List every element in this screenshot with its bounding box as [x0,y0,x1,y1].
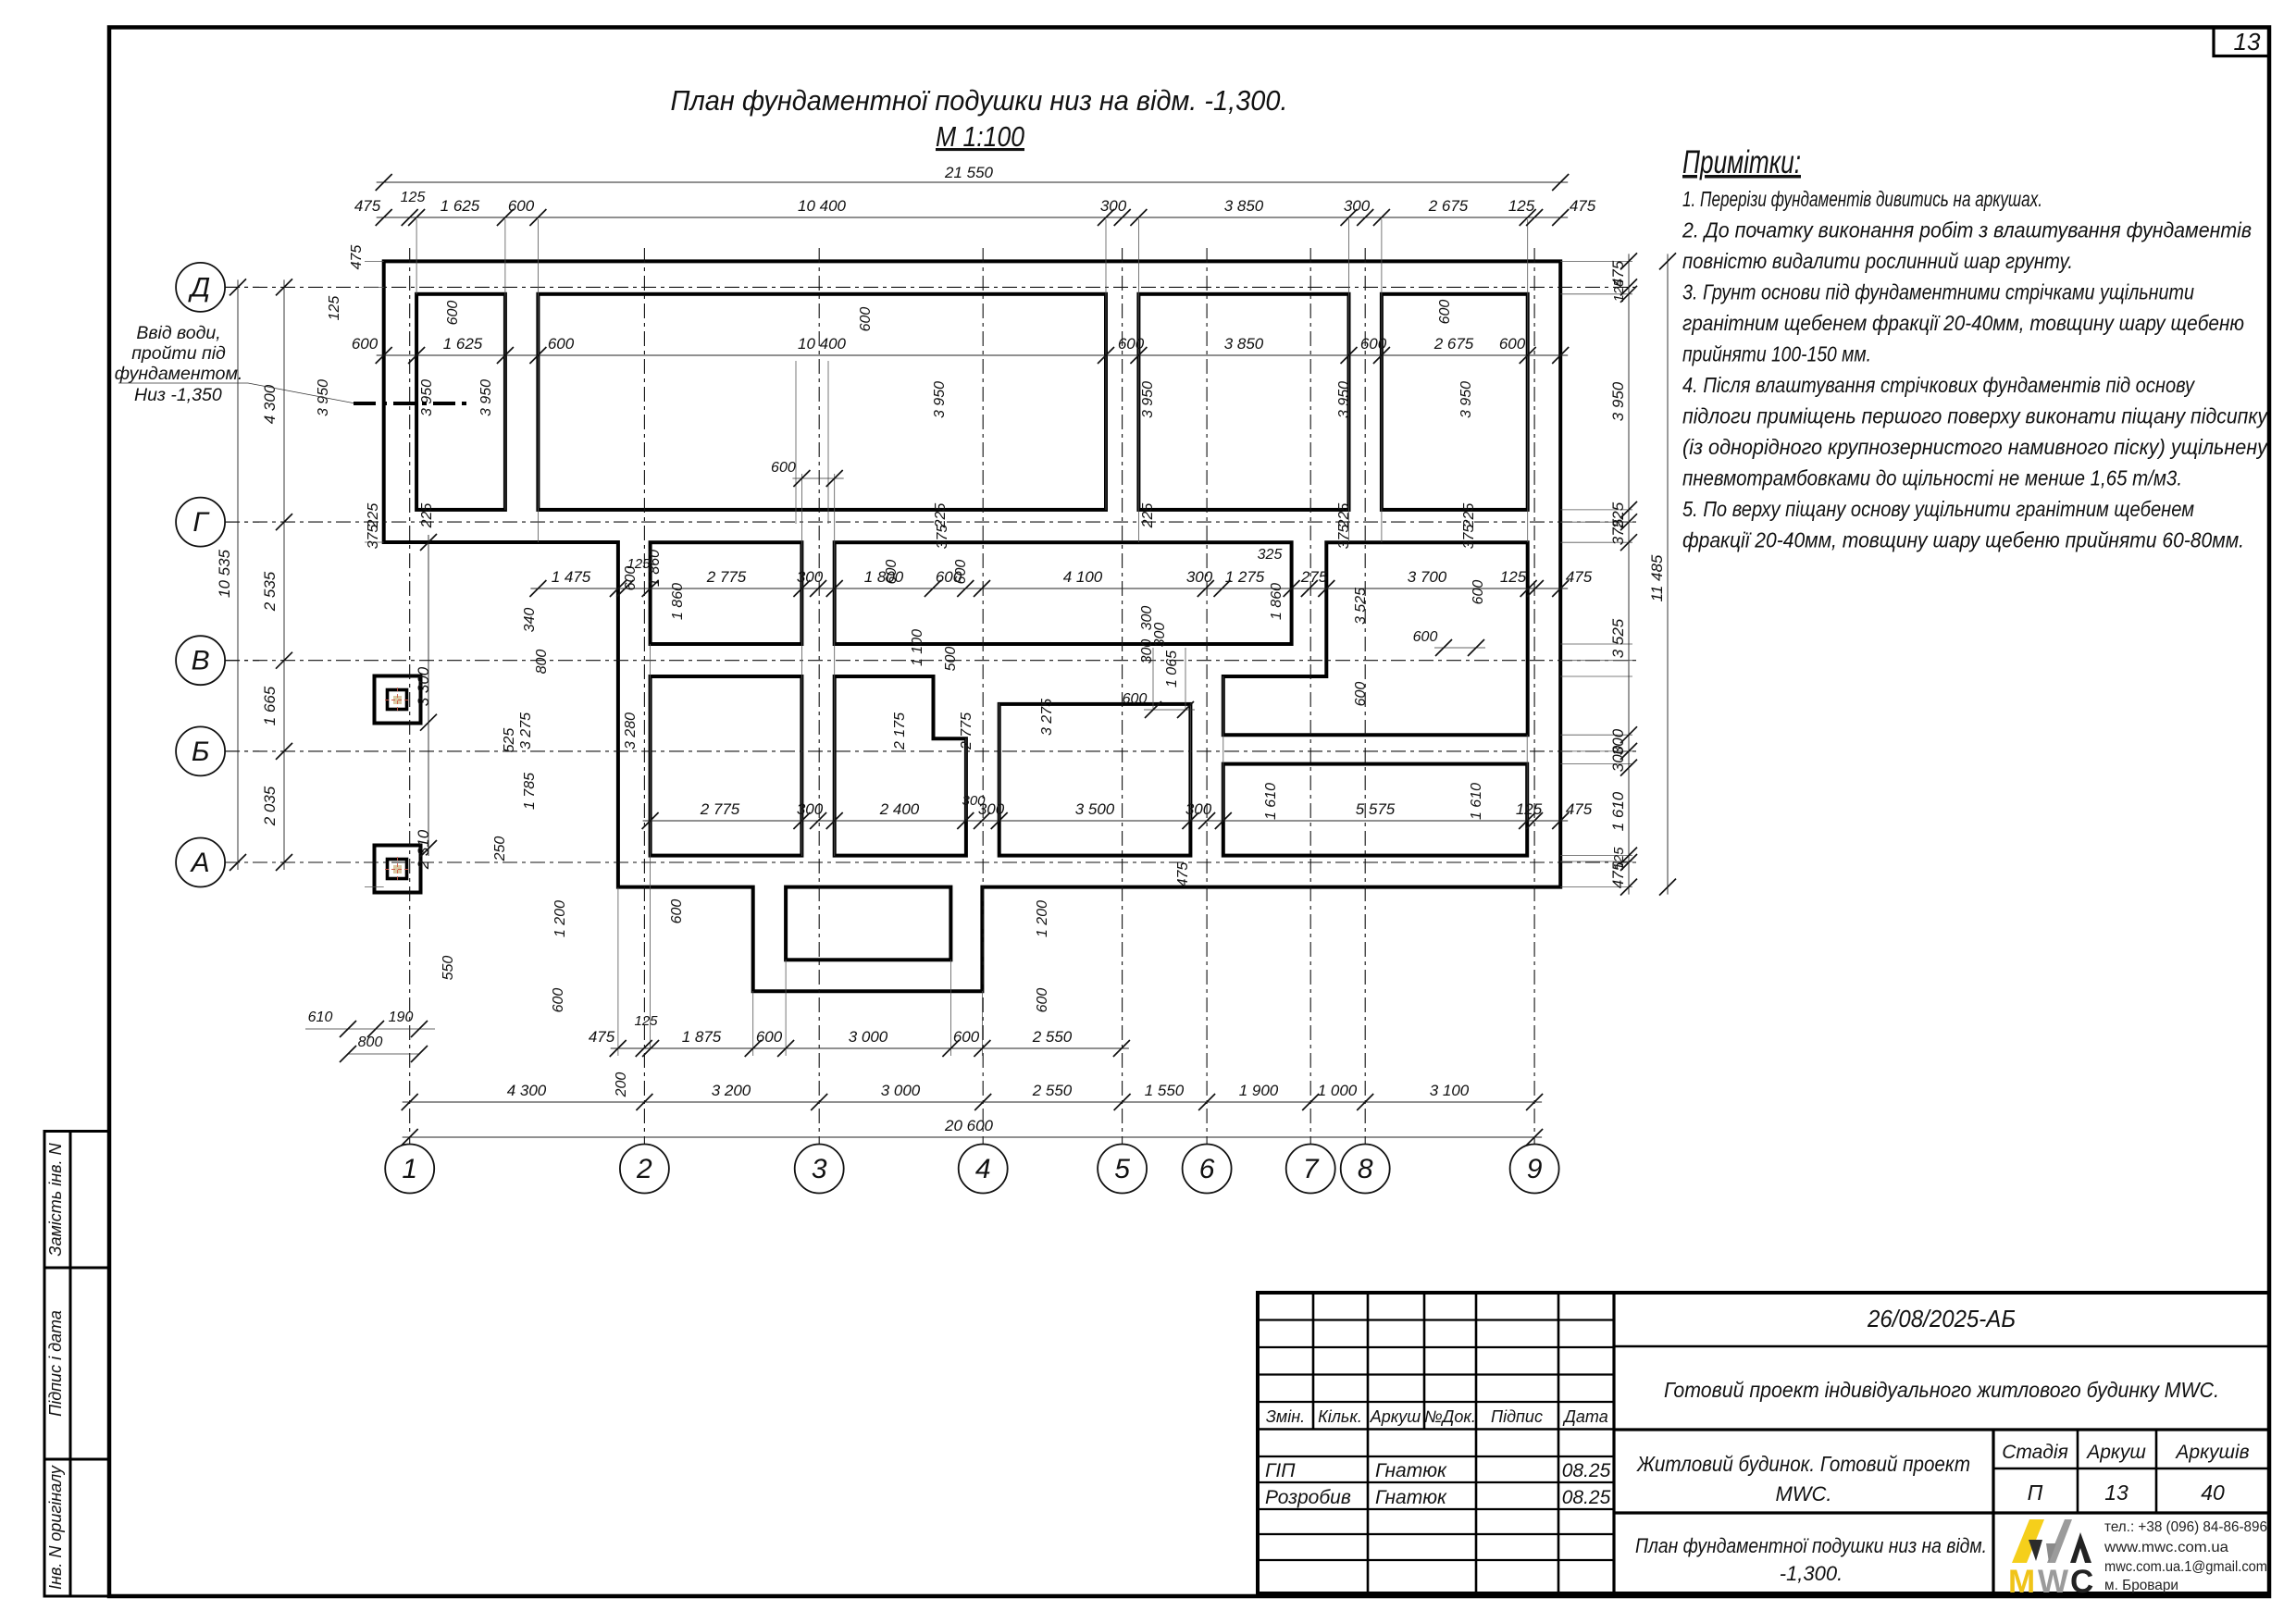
svg-text:2 035: 2 035 [261,786,279,826]
svg-text:4: 4 [975,1154,991,1184]
svg-text:Підпис і дата: Підпис і дата [46,1310,65,1417]
svg-text:125: 125 [1611,279,1627,303]
svg-text:300: 300 [1139,639,1155,664]
axis circle 7 [1286,1145,1335,1194]
room T1 [416,294,505,510]
svg-text:Дата: Дата [1562,1407,1608,1426]
room L4 [1223,764,1527,856]
svg-text:375: 375 [935,525,950,550]
axis 4 line [982,248,984,1145]
axis circle А [176,838,225,887]
svg-text:1 625: 1 625 [443,335,483,353]
svg-text:550: 550 [441,956,456,981]
svg-text:MWC.: MWC. [1775,1482,1831,1505]
svg-text:1: 1 [402,1154,417,1184]
svg-text:2 775: 2 775 [959,712,974,750]
svg-text:Аркушів: Аркушів [2174,1442,2249,1463]
svg-text:475: 475 [589,1028,615,1046]
svg-text:375: 375 [1336,525,1352,550]
svg-text:В: В [192,646,210,676]
axis circle 1 [385,1145,434,1194]
svg-text:3 275: 3 275 [1039,699,1055,736]
porch opening [786,887,950,960]
column footing F2 on axis 1 [375,846,421,893]
svg-text:3 000: 3 000 [881,1082,921,1099]
svg-text:340: 340 [522,608,538,633]
svg-text:375: 375 [1609,518,1627,545]
svg-text:План фундаментної подушки низ: План фундаментної подушки низ на відм. [1635,1534,1987,1557]
svg-text:3 275: 3 275 [518,712,534,750]
svg-text:08.25: 08.25 [1562,1487,1611,1508]
svg-text:Інв. N оригіналу: Інв. N оригіналу [46,1465,65,1590]
svg-text:600: 600 [623,566,639,591]
svg-text:фундаментом.: фундаментом. [115,364,243,384]
svg-text:600: 600 [771,460,796,476]
svg-text:475: 475 [354,197,381,215]
svg-text:W: W [2038,1564,2068,1600]
svg-text:1 275: 1 275 [1225,568,1265,586]
svg-text:800: 800 [534,650,550,675]
svg-text:Низ -1,350: Низ -1,350 [134,385,222,405]
top overall dimension 21550 [377,181,1569,183]
svg-text:1 475: 1 475 [552,568,591,586]
room L2 (notched) [835,676,966,856]
water line (dash-dot thick) [354,402,467,405]
svg-text:600: 600 [1437,300,1453,325]
axis circle 5 [1098,1145,1147,1194]
svg-text:600: 600 [884,560,900,585]
axis circle 2 [620,1145,669,1194]
svg-text:300: 300 [797,800,824,818]
svg-text:475: 475 [1570,197,1596,215]
svg-text:3 525: 3 525 [1609,618,1627,658]
svg-text:Кільк.: Кільк. [1318,1407,1362,1426]
svg-text:200: 200 [614,1072,629,1098]
svg-text:525: 525 [502,728,517,753]
svg-text:475: 475 [1566,568,1593,586]
svg-text:600: 600 [551,988,566,1013]
svg-text:М 1:100: М 1:100 [936,120,1024,153]
svg-text:4 300: 4 300 [261,384,279,424]
svg-text:Аркуш: Аркуш [1370,1407,1421,1426]
svg-text:125: 125 [1508,197,1535,215]
left partial chain 3300/2310 [428,535,429,856]
svg-text:4 100: 4 100 [1063,568,1103,586]
svg-text:3 950: 3 950 [1609,381,1627,421]
svg-text:прийняти 100-150 мм.: прийняти 100-150 мм. [1682,342,1871,366]
svg-text:300: 300 [797,568,824,586]
svg-text:1 625: 1 625 [441,197,480,215]
axis 7 line [1309,248,1311,1145]
svg-text:4. Після влаштування стрічкови: 4. Після влаштування стрічкових фундамен… [1682,373,2195,397]
svg-text:пройти під: пройти під [131,343,226,364]
axis 3 line [818,248,820,1145]
axis circle 9 [1510,1145,1559,1194]
svg-text:Гнатюк: Гнатюк [1375,1460,1447,1481]
svg-text:475: 475 [1175,862,1191,887]
svg-text:План фундаментної подушки низ: План фундаментної подушки низ на відм. -… [671,84,1288,117]
svg-text:3 525: 3 525 [1353,588,1369,625]
svg-text:1 100: 1 100 [910,629,925,666]
lower horizontal chain [643,820,1569,822]
room L1 [651,676,802,856]
svg-text:підлоги приміщень першого пове: підлоги приміщень першого поверху викона… [1682,404,2268,428]
svg-text:(із однорідного крупнозернисто: (із однорідного крупнозернистого намивно… [1682,435,2268,459]
svg-text:Стадія: Стадія [2002,1442,2068,1463]
svg-text:1 665: 1 665 [261,686,279,725]
axis 6 line [1206,248,1208,1145]
svg-text:20 600: 20 600 [944,1117,994,1134]
svg-text:300: 300 [962,793,986,809]
svg-text:4 300: 4 300 [507,1082,547,1099]
svg-text:Аркуш: Аркуш [2085,1442,2146,1463]
svg-text:1 860: 1 860 [670,583,686,620]
svg-text:Д: Д [188,272,210,303]
room T3 [1138,294,1348,510]
porch chain [611,1047,1129,1049]
svg-text:3 950: 3 950 [932,381,948,418]
svg-text:2 550: 2 550 [1032,1028,1073,1046]
svg-text:2 400: 2 400 [879,800,920,818]
svg-text:3 950: 3 950 [1336,381,1352,418]
room M2 [835,542,1292,644]
axis 2 line [643,248,645,1145]
svg-text:11 485: 11 485 [1648,554,1666,601]
svg-text:300: 300 [1609,745,1627,772]
svg-text:фракції 20-40мм, товщину шару: фракції 20-40мм, товщину шару щебеню при… [1682,528,2244,552]
axis 1 line [409,248,411,1145]
svg-text:3 000: 3 000 [849,1028,888,1046]
svg-text:1 860: 1 860 [1269,583,1285,620]
svg-text:600: 600 [445,301,461,326]
left margin label boxes [44,1132,109,1269]
svg-text:2 550: 2 550 [1032,1082,1073,1099]
svg-text:Гнатюк: Гнатюк [1375,1487,1447,1508]
svg-text:5. По верху піщану основу ущіл: 5. По верху піщану основу ущільнити гран… [1682,497,2194,521]
svg-text:ГІП: ГІП [1265,1460,1296,1481]
svg-text:10 535: 10 535 [216,549,233,598]
svg-text:275: 275 [1300,568,1328,586]
svg-text:600: 600 [1118,335,1145,353]
axis В line [225,660,1636,662]
svg-text:10 400: 10 400 [798,197,847,215]
svg-text:475: 475 [349,245,365,270]
svg-text:125: 125 [1500,568,1527,586]
svg-text:300: 300 [1100,197,1127,215]
svg-text:1 550: 1 550 [1145,1082,1185,1099]
svg-text:600: 600 [1471,580,1486,605]
svg-text:610: 610 [308,1010,333,1025]
svg-text:1 200: 1 200 [552,900,568,937]
svg-text:тел.: +38 (096) 84-86-896: тел.: +38 (096) 84-86-896 [2104,1519,2267,1535]
svg-text:2 175: 2 175 [892,712,908,750]
svg-text:125: 125 [401,190,426,205]
svg-text:325: 325 [1258,547,1283,563]
room T4 [1382,294,1528,510]
svg-text:375: 375 [1461,525,1477,550]
svg-text:40: 40 [2201,1481,2225,1505]
left axis distances chain [283,279,285,870]
svg-text:3 300: 3 300 [415,666,432,706]
svg-text:Готовий проект індивідуального: Готовий проект індивідуального житлового… [1664,1378,2219,1402]
MWC logo [2012,1519,2044,1563]
svg-text:125: 125 [1611,847,1627,871]
svg-text:3 950: 3 950 [419,379,435,416]
svg-text:300: 300 [1344,197,1371,215]
svg-text:600: 600 [953,560,969,585]
svg-text:2 535: 2 535 [261,571,279,612]
inner top chain (600s) [377,354,1569,356]
svg-text:5 575: 5 575 [1356,800,1396,818]
svg-text:1 065: 1 065 [1164,650,1180,688]
svg-text:1 860: 1 860 [647,550,663,587]
svg-text:600: 600 [953,1028,980,1046]
axis circle Г [176,498,225,547]
right detailed chain [1628,254,1630,894]
svg-text:600: 600 [508,197,535,215]
axis 8 line [1364,248,1366,1145]
svg-text:м. Бровари: м. Бровари [2104,1578,2178,1593]
svg-text:13: 13 [2104,1481,2128,1505]
svg-text:8: 8 [1358,1154,1373,1184]
svg-text:Змін.: Змін. [1266,1407,1305,1426]
svg-text:600: 600 [1035,988,1050,1013]
svg-text:Г: Г [192,507,210,538]
svg-text:375: 375 [366,525,381,550]
leader line [118,382,248,384]
svg-text:600: 600 [1123,691,1148,707]
small 600 tick dims [792,477,843,479]
title block (stamp) [1258,1293,2269,1593]
svg-text:800: 800 [358,1035,383,1050]
svg-text:www.mwc.com.ua: www.mwc.com.ua [2104,1540,2228,1555]
svg-text:Розробив: Розробив [1265,1487,1351,1508]
svg-text:600: 600 [669,899,685,924]
middle horizontal chain [530,588,1568,589]
svg-text:2 310: 2 310 [415,829,432,870]
svg-text:3 100: 3 100 [1430,1082,1470,1099]
right overall chain 11485 [1667,254,1669,894]
svg-text:3. Грунт основи під фундаментн: 3. Грунт основи під фундаментними стрічк… [1682,280,2194,304]
axis 5 line [1122,248,1123,1145]
svg-text:300: 300 [1186,568,1213,586]
svg-text:П: П [2028,1481,2043,1505]
svg-text:13: 13 [2234,28,2261,56]
svg-text:1 610: 1 610 [1263,783,1279,820]
svg-text:3 950: 3 950 [316,379,331,416]
svg-text:500: 500 [943,647,959,672]
svg-text:M: M [2008,1564,2035,1600]
svg-text:2. До початку виконання робіт: 2. До початку виконання робіт з влаштува… [1682,218,2252,242]
svg-text:300: 300 [1185,800,1212,818]
svg-text:08.25: 08.25 [1562,1460,1611,1481]
svg-text:-1,300.: -1,300. [1780,1562,1843,1585]
top chain detailed [377,217,1569,218]
svg-text:2: 2 [636,1154,652,1184]
axis Б line [225,750,1636,752]
svg-text:Б: Б [192,737,210,767]
svg-text:mwc.com.ua.1@gmail.com: mwc.com.ua.1@gmail.com [2104,1559,2267,1575]
svg-text:1 785: 1 785 [522,773,538,810]
axis circle 6 [1183,1145,1232,1194]
svg-text:3 200: 3 200 [712,1082,751,1099]
foundation outer boundary [384,261,1561,991]
axis circle В [176,636,225,685]
page number box 13 [2214,28,2269,56]
svg-text:1 900: 1 900 [1239,1082,1279,1099]
room M1 [651,542,802,644]
axis circle 8 [1341,1145,1390,1194]
axis circle 3 [795,1145,844,1194]
svg-text:3 700: 3 700 [1408,568,1447,586]
svg-text:6: 6 [1199,1154,1215,1184]
svg-text:600: 600 [352,335,379,353]
svg-text:пневмотрамбовками до щільності: пневмотрамбовками до щільності не менше … [1682,466,2182,490]
svg-text:1 875: 1 875 [682,1028,722,1046]
axis Г line [225,521,1636,523]
axis 9 line [1533,248,1535,1145]
svg-text:повністю видалити рослинний ша: повністю видалити рослинний шар грунту. [1682,249,2073,273]
svg-text:9: 9 [1527,1154,1543,1184]
svg-text:10 400: 10 400 [798,335,847,353]
axis А line [225,861,1636,863]
axis circle Б [176,726,225,775]
svg-text:3 950: 3 950 [478,379,494,416]
svg-text:3 280: 3 280 [623,712,639,750]
svg-text:3 500: 3 500 [1075,800,1115,818]
svg-text:C: C [2070,1564,2093,1600]
svg-text:600: 600 [548,335,575,353]
svg-text:гранітним щебенем фракції 20-4: гранітним щебенем фракції 20-40мм, товщи… [1682,311,2244,335]
svg-text:3 950: 3 950 [1458,381,1474,418]
svg-text:3 850: 3 850 [1224,197,1264,215]
svg-text:7: 7 [1303,1154,1320,1184]
svg-text:125: 125 [1516,800,1543,818]
svg-text:1 610: 1 610 [1609,791,1627,831]
svg-text:2 675: 2 675 [1433,335,1474,353]
svg-text:Житловий будинок. Готовий прое: Житловий будинок. Готовий проект [1636,1452,1970,1476]
svg-text:225: 225 [1140,503,1156,529]
svg-text:21 550: 21 550 [944,164,994,181]
svg-text:1 000: 1 000 [1318,1082,1358,1099]
left overall chain 10535 [237,279,239,870]
axis circle 4 [959,1145,1008,1194]
svg-text:Примітки:: Примітки: [1682,144,1801,180]
svg-text:Підпис: Підпис [1491,1407,1543,1426]
svg-text:250: 250 [492,836,508,862]
column footing F1 on axis 1 [375,676,421,724]
svg-text:2 775: 2 775 [700,800,740,818]
svg-text:Замість інв. N: Замість інв. N [46,1142,65,1256]
svg-text:225: 225 [419,503,435,529]
svg-text:5: 5 [1114,1154,1130,1184]
svg-text:125: 125 [327,296,342,321]
thin extension lines [416,219,417,294]
svg-text:Ввід води,: Ввід води, [136,323,220,343]
svg-text:475: 475 [1566,800,1593,818]
svg-text:2 775: 2 775 [706,568,747,586]
svg-text:3 850: 3 850 [1224,335,1264,353]
svg-text:3: 3 [812,1154,827,1184]
room L3 [999,704,1191,856]
axis Д line [225,286,1636,288]
svg-text:600: 600 [1413,629,1438,645]
svg-text:26/08/2025-АБ: 26/08/2025-АБ [1867,1305,2016,1332]
svg-text:1 200: 1 200 [1035,900,1050,937]
room T2 [538,294,1106,510]
svg-text:600: 600 [756,1028,783,1046]
svg-text:3 950: 3 950 [1140,381,1156,418]
bottom axes chain [403,1101,1542,1103]
svg-text:190: 190 [389,1010,414,1025]
svg-text:125: 125 [634,1013,658,1029]
svg-text:1 610: 1 610 [1469,783,1484,820]
axis circle Д [176,263,225,312]
svg-text:600: 600 [1353,682,1369,707]
svg-text:1. Перерізи фундаментів дивити: 1. Перерізи фундаментів дивитись на арку… [1682,187,2042,211]
bottom overall 20600 [403,1136,1542,1138]
svg-text:2 675: 2 675 [1428,197,1469,215]
svg-text:А: А [190,848,210,878]
svg-text:600: 600 [1499,335,1526,353]
room M3 (L-shaped) [1223,542,1528,735]
svg-text:600: 600 [858,307,874,332]
svg-text:600: 600 [1360,335,1387,353]
svg-text:№Док.: №Док. [1424,1407,1476,1426]
